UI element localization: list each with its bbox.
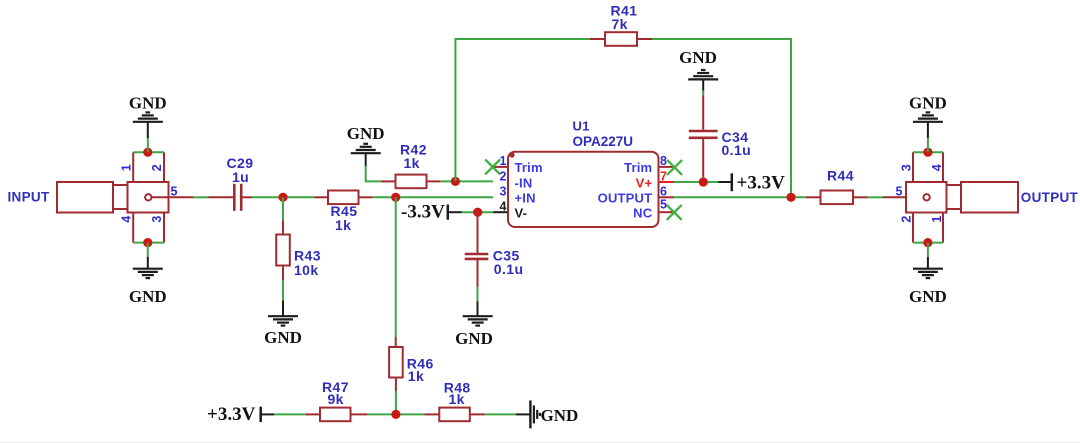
svg-text:8: 8 [660,154,667,168]
resistor R44 [806,191,868,205]
connector INPUT pins 1,2 leads [132,152,134,182]
svg-text:9k: 9k [328,391,344,407]
svg-text:GND: GND [347,124,385,143]
resistor R47 [306,408,367,422]
svg-text:1: 1 [930,216,944,223]
svg-text:Trim: Trim [624,160,652,175]
svg-text:GND: GND [679,48,717,67]
wire node B down to R46 [395,197,397,337]
svg-text:OUTPUT: OUTPUT [598,191,653,206]
wire joining pins 3,4 [913,151,943,153]
wire R45 to opamp pin3 [373,196,494,198]
wire R43 to gnd [282,280,284,301]
wire R47 to node C [367,413,424,415]
no-connect X pin5 [667,205,682,220]
svg-text:1: 1 [119,164,133,171]
wire -3.3V to pin4 [448,211,462,213]
resistor R48 [424,408,484,422]
wire pin6 output [674,196,806,198]
svg-text:GND: GND [909,94,947,113]
svg-text:+IN: +IN [515,191,536,206]
wire pin7 to +3.3V [674,181,719,183]
pin 8 stub [659,166,675,168]
wire R44 to output connector [868,196,884,198]
connector INPUT pins 4,3 leads [132,213,134,243]
ground flag right [530,400,540,428]
power +3.3V bottom bar [259,407,262,422]
wire C35 to gnd [477,287,479,302]
wire output top gnd stem [927,138,929,153]
resistor R43 [276,220,290,280]
svg-text:4: 4 [119,216,133,223]
svg-text:+3.3V: +3.3V [207,404,256,425]
svg-text:1k: 1k [408,368,424,384]
capacitor C35 [465,212,489,287]
svg-text:INPUT: INPUT [8,190,50,205]
svg-text:5: 5 [660,198,667,212]
wire R46 to bottom rail [395,391,397,414]
wire joining pins 4,3 [133,242,164,244]
svg-text:Trim: Trim [515,160,543,175]
junction node C [391,410,400,419]
wire joining pins 2,1 [913,242,943,244]
ground R42 [351,144,381,153]
svg-text:10k: 10k [294,262,319,278]
junction node E [786,193,795,202]
op-amp U1 body [508,152,659,227]
svg-text:-IN: -IN [515,175,533,190]
wire joining pins 1,2 [133,151,164,153]
svg-text:3: 3 [150,216,164,223]
wire node A down to R43 [282,197,284,220]
svg-text:3: 3 [500,185,507,199]
wire input bottom gnd stem [147,243,149,258]
wire C34 to V+ [702,177,704,183]
capacitor C34 [689,79,718,177]
capacitor C29 [209,184,253,211]
svg-text:NC: NC [633,206,653,221]
svg-text:V+: V+ [636,175,653,190]
svg-text:V-: V- [515,206,528,221]
no-connect X pin8 [667,160,682,175]
pin 1 stub [492,166,508,168]
svg-text:4: 4 [500,200,507,214]
wire C29 to R45 [252,196,315,198]
junction node D [451,177,460,186]
connector OUTPUT pin 5 lead [883,196,923,198]
svg-text:5: 5 [171,184,178,198]
ground output bottom [913,269,943,278]
wire gnd to R42 [365,153,367,166]
junction output bottom [923,238,932,247]
ground C35 [463,316,493,325]
svg-text:GND: GND [909,287,947,306]
svg-text:5: 5 [896,184,903,198]
svg-text:2: 2 [900,216,914,223]
svg-text:1: 1 [500,154,507,168]
wire R42 to opamp pin2 [441,180,493,182]
svg-text:7k: 7k [612,16,628,32]
svg-text:U1: U1 [573,119,590,134]
junction node A [278,193,287,202]
svg-text:+3.3V: +3.3V [737,173,786,194]
ground R43 [268,316,298,325]
connector INPUT pin 5 lead [152,196,194,198]
ground input bottom [133,269,163,278]
svg-text:2: 2 [150,164,164,171]
junction output top [923,148,932,157]
connector J-OUTPUT body [906,182,1018,213]
wire node B to R46 top lead [395,337,397,347]
wire output bottom gnd stem [927,243,929,258]
junction node G [473,208,482,217]
svg-text:1k: 1k [449,391,465,407]
svg-text:4: 4 [930,164,944,171]
svg-text:R44: R44 [827,168,854,184]
svg-text:GND: GND [129,94,167,113]
ground output top [913,112,943,121]
wire R48 to gnd flag [485,413,517,415]
bottom edge artifact line [0,442,1080,443]
svg-text:GND: GND [129,287,167,306]
svg-text:6: 6 [660,185,667,199]
svg-text:2: 2 [500,169,507,183]
svg-text:OPA227U: OPA227U [573,134,634,149]
junction input top [143,148,152,157]
svg-text:3: 3 [900,164,914,171]
connector OUTPUT pins 2,1 leads [912,213,914,243]
pin1 marker [509,152,514,157]
ground C34 [688,70,718,79]
wire input pin5 to C29 [193,196,209,198]
wire R41 to output node [652,39,791,197]
svg-text:0.1u: 0.1u [494,261,524,277]
svg-text:-3.3V: -3.3V [401,202,445,223]
svg-text:0.1u: 0.1u [722,142,752,158]
resistor R45 [315,191,373,205]
svg-text:GND: GND [541,406,579,425]
pin 6 stub [659,196,675,198]
power -3.3V bar [447,205,450,220]
pin 7 stub [659,181,675,183]
resistor R46 [389,347,403,391]
wire +3.3V to R47 [261,413,275,415]
svg-text:1u: 1u [232,169,249,185]
svg-text:OUTPUT: OUTPUT [1021,190,1079,205]
resistor R42 [381,175,441,189]
junction node F [699,177,708,186]
ground input top [133,112,163,121]
connector J-INPUT body [57,182,169,213]
svg-text:1k: 1k [335,217,351,233]
no-connect X pin1 [485,159,500,174]
junction node B [391,193,400,202]
wire node D up to R41 [455,39,590,181]
svg-text:7: 7 [660,169,667,183]
svg-text:GND: GND [455,329,493,348]
pin 5 stub [659,211,675,213]
connector OUTPUT pins 3,4 leads [912,152,914,182]
svg-text:1k: 1k [404,155,420,171]
resistor R41 [590,32,652,46]
svg-text:GND: GND [264,328,302,347]
power +3.3V bar [731,173,734,191]
junction input bottom [143,238,152,247]
wire input top gnd stem [147,138,149,153]
